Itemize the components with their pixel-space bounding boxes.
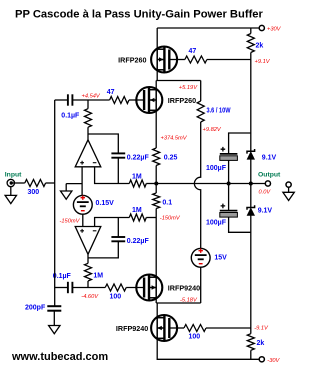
wire: ground branch of U1 + input (66, 183, 82, 185)
resistor 0.1 (155, 184, 157, 194)
svg-text:0.1µF: 0.1µF (61, 113, 80, 120)
zener diode D2 9.1V (247, 205, 255, 215)
voltage source V1 15V (191, 248, 210, 267)
svg-text:+4.54V: +4.54V (82, 93, 101, 99)
svg-text:100: 100 (110, 293, 122, 300)
voltage source V2 0.15V offset (73, 195, 92, 214)
svg-text:-150mV: -150mV (60, 218, 81, 224)
resistor 2k lower (250, 328, 252, 334)
op-amp U2 (points down) (75, 227, 101, 255)
svg-text:www.tubecad.com: www.tubecad.com (11, 351, 108, 363)
zener diode D1 9.1V (247, 149, 255, 159)
terminal -30V (259, 357, 264, 362)
svg-text:0.1: 0.1 (162, 199, 172, 206)
wire: M1 source down to +5.19V node wire (156, 70, 158, 81)
svg-text:100: 100 (189, 333, 201, 340)
svg-text:15V: 15V (214, 255, 227, 262)
junction dot (C5/C6) (227, 182, 231, 186)
terminal +30V (259, 25, 264, 30)
wire: left vertical rail (54, 100, 56, 306)
resistor 47 (M2 gate) (110, 97, 129, 104)
svg-text:IRFP260: IRFP260 (118, 56, 146, 65)
svg-text:+9.1V: +9.1V (255, 59, 271, 65)
op-amp U1 (points up) (75, 140, 101, 167)
svg-text:3.6 / 10W: 3.6 / 10W (207, 108, 231, 115)
resistor 1M vertical (bottom gate bias) (87, 254, 89, 263)
resistor 1M vertical (top gate bias, unlabeled) (87, 100, 89, 109)
svg-text:-4.60V: -4.60V (81, 294, 99, 300)
svg-text:100µF: 100µF (206, 165, 227, 172)
wire: M4 drain up to -5.18V wire (156, 303, 158, 318)
wire: -5.18V horizontal (156, 302, 201, 304)
resistor 2k upper (247, 34, 254, 53)
wire + resistor 300 (13, 182, 25, 184)
svg-text:0.0V: 0.0V (259, 189, 272, 195)
wire: 0.25 to output junction (155, 166, 157, 184)
MOSFET M1 gate wire with 47 ohm resistor (169, 59, 185, 61)
MOSFET Q2 IRFP260 (cascode) (136, 87, 162, 113)
capacitor C2 0.1uF (68, 282, 73, 293)
svg-text:2k: 2k (256, 43, 264, 50)
wire: 2k to +9.1V node, rail down to zener D1 (250, 53, 252, 152)
wire: M3 source down to -5.18V wire (155, 298, 157, 303)
svg-text:1M: 1M (132, 207, 142, 214)
svg-text:0.15V: 0.15V (96, 200, 115, 207)
wire: 47 to M2 gate (129, 99, 145, 101)
wire: C1 to gate node to 47 ohm (72, 99, 109, 101)
svg-text:47: 47 (189, 48, 197, 55)
capacitor C5 100uF (upper) (220, 147, 238, 161)
wire: 15V source down to -5.18V wire (200, 267, 202, 303)
wire: +5.19V horizontal (M2 drain to 3.6 ohm) (156, 80, 201, 82)
wire: middle rail down to M3 (155, 209, 157, 278)
svg-text:IRFP260: IRFP260 (168, 96, 196, 105)
wire: C6 from output line (228, 184, 230, 211)
wire: middle rail, M2 source to 0.25 resistor (155, 110, 157, 148)
svg-text:+30V: +30V (267, 26, 282, 32)
wire: U1 inverting input to feedback line (95, 167, 130, 184)
svg-text:+374.5mV: +374.5mV (161, 135, 188, 141)
svg-text:300: 300 (28, 189, 40, 196)
ground (200pF) (49, 326, 60, 334)
MOSFET M4 gate wire with 100 ohm resistor (169, 327, 184, 329)
capacitor C1 0.1uF (68, 94, 73, 105)
svg-text:+5.19V: +5.19V (179, 85, 198, 91)
wire: C5 to output line (228, 161, 230, 184)
wire: M4 source down to bottom rail (157, 338, 259, 359)
svg-text:0.22µF: 0.22µF (127, 238, 150, 245)
svg-text:Output: Output (258, 171, 281, 178)
wire: bottom gate line from left rail to cap C2 (55, 287, 68, 289)
ground (op-amp reference) (61, 191, 72, 199)
svg-text:IRFP9240: IRFP9240 (116, 324, 148, 333)
terminal Input jack (7, 179, 14, 186)
svg-text:Input: Input (5, 171, 22, 178)
wire: tee to compensation cap C3 (88, 134, 118, 153)
ground (input jack) (5, 195, 16, 203)
wire: output line (156, 183, 265, 185)
svg-text:-150mV: -150mV (160, 216, 181, 222)
wire: 100 to M3 gate (126, 287, 144, 289)
svg-text:-30V: -30V (267, 358, 280, 364)
MOSFET Q4 IRFP9240 (bottom, mirrored) (151, 315, 177, 341)
svg-text:-9.1V: -9.1V (254, 325, 269, 331)
ground (output reference) (283, 192, 294, 200)
svg-text:2k: 2k (257, 340, 265, 347)
svg-text:9.1V: 9.1V (262, 154, 277, 161)
svg-text:IRFP9240: IRFP9240 (168, 283, 200, 292)
wire: U1 non-inverting input down to 0.15V source (81, 167, 83, 196)
capacitor C7 200pF (47, 306, 61, 311)
MOSFET Q1 IRFP260 (top, mirrored) (151, 47, 177, 73)
capacitor C6 100uF (lower) (220, 204, 238, 218)
wire: right rail top segment (250, 28, 252, 34)
resistor 3.6/10W (200, 81, 202, 102)
wire: output node down to zener D2 (250, 184, 252, 208)
wire: top gate line from left rail to cap C1 (55, 99, 68, 101)
MOSFET Q3 IRFP9240 (cascode) (136, 275, 162, 301)
svg-text:47: 47 (107, 89, 115, 96)
svg-text:-5.18V: -5.18V (180, 297, 198, 303)
svg-text:0.1µF: 0.1µF (53, 273, 72, 280)
wire: C4 bottom loop to U2 output (88, 241, 118, 258)
wire: 200pF to ground (53, 311, 55, 326)
wire: M1 drain to top rail (156, 28, 158, 49)
svg-text:1M: 1M (132, 174, 142, 181)
svg-text:9.1V: 9.1V (258, 208, 273, 215)
svg-text:PP Cascode à la Pass Unity-Gai: PP Cascode à la Pass Unity-Gain Power Bu… (15, 9, 264, 21)
svg-text:+9.82V: +9.82V (203, 127, 222, 133)
wire: D1 to output junction (250, 159, 252, 183)
wire: 0.15V source to U2 non-inverting input (82, 214, 84, 226)
junction dot (middle rail / output) (154, 182, 158, 186)
wire: input jack ground stem (10, 187, 12, 196)
resistor 0.25 (153, 148, 160, 166)
resistor 1M (U1 feedback) (129, 180, 146, 187)
wire: D2 down to -9.1V node (250, 216, 252, 329)
svg-text:100µF: 100µF (206, 219, 227, 226)
wire: 100uF bottom loop (229, 217, 251, 232)
capacitor C4 0.22uF (117, 218, 119, 238)
wire: M2 drain up (155, 81, 157, 90)
svg-text:1M: 1M (93, 273, 103, 280)
junction dot (right rail / output) (249, 182, 253, 186)
terminal Output (265, 181, 270, 186)
wire: C3 down to feedback line (117, 158, 119, 184)
resistor 1M (U2 feedback) (129, 214, 146, 221)
svg-text:200pF: 200pF (25, 305, 46, 312)
wire: +30V top rail (157, 27, 259, 29)
wire: 100uF top loop (229, 133, 251, 153)
svg-text:0.25: 0.25 (164, 154, 178, 161)
floating ground reference (right) (286, 182, 291, 192)
resistor 100 (M3 gate) (105, 284, 126, 291)
svg-text:0.22µF: 0.22µF (127, 155, 150, 162)
capacitor C3 0.22uF (111, 153, 125, 157)
wire: C2 to -4.60V node to 100 ohm (72, 287, 105, 289)
wire: U2 inverting input to feedback line (95, 218, 130, 227)
wire: 3.6 ohm down to hop over output line (194, 122, 200, 248)
